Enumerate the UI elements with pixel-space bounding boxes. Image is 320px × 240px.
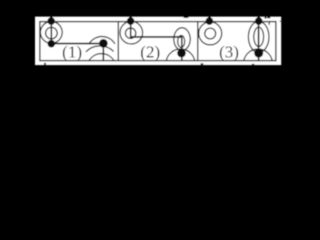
ring R2 outer ellipse bbox=[174, 28, 190, 51]
ring R2 axis line bbox=[181, 37, 183, 61]
scan speck above top border near panel 3 bbox=[183, 16, 188, 18]
ball B1 dot bbox=[99, 39, 108, 48]
scan speck below bottom border near left corner bbox=[44, 63, 46, 65]
outer rectangle frame bbox=[40, 22, 276, 61]
scan speck above top border near right corner B bbox=[267, 16, 270, 18]
ground mound panel 2 bbox=[166, 49, 194, 61]
sphere S1 outer circle bbox=[40, 22, 62, 44]
node dot S1 bottom bbox=[48, 40, 56, 48]
sphere S2 axis line bbox=[130, 21, 132, 38]
scan stub above node dot S3 bbox=[208, 16, 211, 20]
scan speck below bottom border right of divider 2 bbox=[201, 63, 204, 65]
scan stub above ring R3 top dot bbox=[257, 16, 260, 20]
node dot S3 top bbox=[206, 17, 214, 25]
ring R3 top dot bbox=[255, 17, 263, 25]
scan speck above top border left of divider 1 bbox=[115, 16, 117, 17]
node dot S2 top bbox=[127, 17, 135, 25]
ground arc top panel 1 bbox=[89, 37, 115, 45]
wire panel 2 bbox=[131, 36, 182, 38]
scan notch in bottom white edge panel 3 bbox=[252, 64, 255, 65]
wire panel 1 bbox=[51, 43, 103, 45]
ring R3 outer ellipse bbox=[248, 21, 269, 52]
sphere S3 outer circle bbox=[199, 22, 222, 45]
scan stub above node dot S2 bbox=[129, 16, 132, 20]
svg-text:(1): (1) bbox=[62, 43, 82, 62]
sphere S2 outer circle bbox=[120, 21, 143, 44]
node dot S1 top bbox=[47, 17, 55, 25]
ground mound panel 3 bbox=[244, 49, 272, 61]
scan stub above node dot S1 bbox=[50, 16, 53, 20]
ring R3 axis line bbox=[258, 21, 260, 61]
sphere S1 inner circle bbox=[46, 27, 58, 39]
white figure background bbox=[35, 17, 281, 66]
ball B1 post bbox=[102, 43, 104, 60]
ring R3 inner ellipse bbox=[254, 27, 264, 46]
stray line stub beyond top-right corner bbox=[280, 20, 282, 22]
scan speck above top border near right corner A bbox=[264, 16, 266, 19]
sphere S1 axis line bbox=[50, 21, 52, 44]
svg-text:(3): (3) bbox=[219, 43, 239, 62]
ring R3 bottom dot bbox=[254, 49, 263, 58]
ground arc bottom panel 1 bbox=[89, 54, 114, 61]
ball B2 dot bbox=[177, 49, 186, 58]
ring R2 inner ellipse bbox=[178, 36, 185, 48]
sphere S3 inner circle bbox=[205, 28, 216, 39]
sphere S2 inner circle bbox=[125, 28, 135, 38]
ground arc middle panel 1 bbox=[86, 46, 114, 52]
divider panel 1|2 bbox=[117, 22, 119, 61]
svg-text:(2): (2) bbox=[140, 43, 160, 62]
stray tick mark bbox=[268, 22, 270, 25]
divider panel 2|3 bbox=[197, 22, 199, 61]
